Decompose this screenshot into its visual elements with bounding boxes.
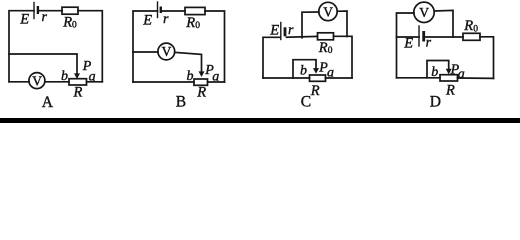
svg-text:a: a <box>458 67 465 82</box>
svg-text:b: b <box>300 64 307 79</box>
svg-text:b: b <box>431 65 438 80</box>
svg-text:0: 0 <box>328 46 333 56</box>
svg-text:0: 0 <box>72 21 77 31</box>
svg-text:r: r <box>163 12 169 27</box>
svg-text:R: R <box>445 83 455 99</box>
svg-text:E: E <box>403 36 413 52</box>
svg-text:R: R <box>463 18 473 34</box>
svg-text:C: C <box>301 93 311 110</box>
svg-text:r: r <box>42 10 48 25</box>
svg-text:V: V <box>162 44 172 59</box>
svg-text:b: b <box>187 69 194 84</box>
svg-text:A: A <box>42 94 54 111</box>
svg-text:0: 0 <box>195 21 200 31</box>
svg-text:E: E <box>142 13 152 29</box>
svg-text:D: D <box>430 94 441 111</box>
svg-text:r: r <box>426 36 432 51</box>
svg-text:R: R <box>62 15 72 31</box>
svg-text:a: a <box>89 70 96 85</box>
svg-text:V: V <box>32 73 42 88</box>
svg-text:R: R <box>310 83 320 99</box>
svg-text:R: R <box>196 85 206 101</box>
svg-text:R: R <box>73 85 83 101</box>
svg-text:E: E <box>269 23 279 39</box>
svg-text:r: r <box>288 23 294 38</box>
svg-text:0: 0 <box>473 25 478 35</box>
svg-text:a: a <box>327 66 334 81</box>
svg-text:R: R <box>185 15 195 31</box>
svg-text:V: V <box>323 4 333 19</box>
svg-text:a: a <box>212 70 219 85</box>
svg-text:E: E <box>19 12 29 28</box>
svg-text:V: V <box>419 5 429 20</box>
svg-text:B: B <box>176 93 186 110</box>
svg-text:b: b <box>61 69 68 84</box>
svg-text:R: R <box>318 40 328 56</box>
